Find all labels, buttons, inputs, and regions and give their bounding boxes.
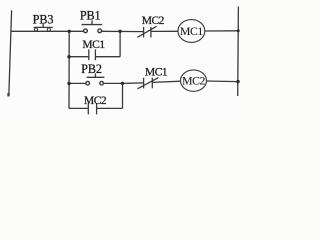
junction dot: node A on rung 1 bbox=[68, 30, 71, 33]
contact MC1 (NC) right bar bbox=[151, 78, 153, 89]
svg-text:MC1: MC1 bbox=[82, 39, 105, 51]
push button PB3 (NC) bar bbox=[34, 26, 53, 28]
push button PB2 left terminal bbox=[86, 81, 90, 85]
rung 2 wire: coil MC2 to right rail bbox=[206, 80, 238, 83]
rung 2 wire: PB2 to node B bbox=[104, 82, 123, 84]
push button PB3 plunger bbox=[42, 24, 44, 28]
rung 2 wire: node to PB2 left terminal bbox=[69, 82, 86, 84]
left rail bbox=[9, 10, 12, 96]
contact MC2 (NO) right bar bbox=[96, 103, 98, 114]
junction dot: branch 1 right on rung 1 bbox=[118, 30, 121, 33]
svg-text:MC1: MC1 bbox=[145, 67, 168, 79]
push button PB2 right terminal bbox=[100, 81, 104, 85]
junction dot: rung 2 at right rail bbox=[236, 80, 239, 83]
wire: branch 2 right vertical to rung 2 bbox=[122, 83, 124, 108]
wire: holding branch 1 right bbox=[95, 56, 120, 58]
push button PB1 right terminal bbox=[98, 29, 102, 33]
contact MC2 (NC) slash bbox=[137, 26, 156, 37]
label MC2 (holding contact branch 2) bbox=[84, 95, 107, 107]
label MC2 (coil 2 text) bbox=[182, 74, 205, 87]
contact MC1 (NO) right bar bbox=[94, 49, 96, 60]
junction dot: node A at branch 1 bbox=[67, 55, 70, 58]
svg-text:MC2: MC2 bbox=[84, 95, 107, 107]
label MC1 (holding contact branch 1) bbox=[82, 39, 105, 51]
wire: holding branch 1 left bbox=[69, 56, 89, 58]
wire: branch 2 right bbox=[97, 107, 123, 109]
label MC1 (coil 1 text) bbox=[180, 25, 203, 38]
contact MC1 (NO) left bar bbox=[88, 49, 90, 60]
coil MC1 bbox=[178, 20, 205, 43]
contact MC1 (NC) left bar bbox=[143, 78, 145, 89]
node after PB3 vertical (feeds holding branch and rung 2) bbox=[68, 31, 70, 108]
wire: branch 1 right vertical to rung 1 bbox=[119, 31, 121, 56]
rung 2 wire: MC1 contact to coil MC2 bbox=[152, 81, 180, 82]
label MC1 (rung 2 NC contact) bbox=[145, 67, 168, 79]
junction dot: node A at rung 2 bbox=[67, 82, 70, 85]
push button PB2 plunger bbox=[94, 73, 96, 77]
label MC2 (rung 1 NC contact) bbox=[142, 15, 165, 27]
push button PB1 left terminal bbox=[84, 29, 88, 33]
svg-text:MC2: MC2 bbox=[182, 74, 205, 87]
svg-text:MC2: MC2 bbox=[142, 15, 165, 27]
push button PB1 plunger bbox=[91, 20, 93, 24]
push button PB3 right terminal bbox=[47, 28, 50, 31]
svg-text:MC1: MC1 bbox=[180, 25, 203, 38]
label PB3 bbox=[33, 13, 54, 27]
rung 1 wire: MC2 contact to coil MC1 bbox=[151, 30, 178, 32]
coil MC2 bbox=[181, 70, 207, 91]
rung 1 wire: rail to PB1 left terminal bbox=[11, 30, 83, 32]
push button PB2 (NO) bar bbox=[87, 76, 105, 78]
contact MC2 (NC) right bar bbox=[150, 27, 152, 38]
push button PB1 (NO) bar bbox=[82, 24, 103, 26]
svg-text:PB2: PB2 bbox=[81, 62, 102, 76]
scan artifact bottom left bbox=[7, 93, 9, 96]
junction dot: rung 1 at right rail bbox=[237, 29, 240, 32]
rung 1 wire: PB1 to MC2 contact bbox=[102, 30, 144, 32]
svg-text:PB3: PB3 bbox=[33, 13, 54, 27]
junction dot: node B on rung 2 bbox=[121, 82, 124, 85]
rung 2 wire: node B to MC1 contact bbox=[122, 82, 143, 85]
contact MC1 (NC) slash bbox=[138, 78, 159, 89]
label PB2 bbox=[81, 62, 102, 76]
svg-text:PB1: PB1 bbox=[80, 9, 101, 23]
right rail bbox=[237, 7, 240, 97]
push button PB3 left terminal bbox=[34, 28, 37, 31]
label PB1 bbox=[80, 9, 101, 23]
contact MC2 (NC) left bar bbox=[143, 27, 145, 38]
contact MC2 (NO) left bar bbox=[87, 103, 89, 114]
wire: branch 2 (holding MC2) left bbox=[69, 107, 88, 109]
rung 1 wire: coil MC1 to right rail bbox=[205, 30, 239, 32]
